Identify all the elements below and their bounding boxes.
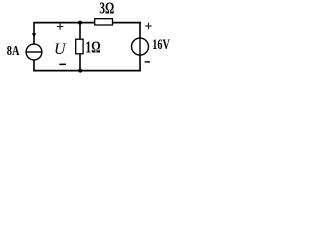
resistor R2 box (3 ohm, horizontal) (95, 19, 113, 25)
node junction dot top (78, 21, 82, 25)
resistor R1 box (1 ohm, vertical) (76, 39, 83, 54)
svg-text:U: U (54, 41, 67, 58)
wire left vertical lower (33, 60, 35, 72)
wire bottom segment (33, 70, 141, 72)
voltage source vertical bar (139, 38, 141, 55)
svg-text:16V: 16V (152, 37, 170, 53)
label minus (U) (59, 64, 66, 66)
label plus (16V) (145, 23, 151, 29)
voltage source V1 circle (16V) (132, 38, 149, 55)
svg-text:1Ω: 1Ω (85, 38, 100, 57)
svg-text:3Ω: 3Ω (99, 0, 114, 18)
wire top-left segment (34, 22, 95, 24)
label plus (U) (57, 23, 63, 29)
wire left vertical upper (33, 22, 35, 45)
svg-text:8A: 8A (7, 44, 20, 59)
node junction dot bottom (78, 69, 82, 73)
wire right vertical lower (139, 55, 141, 71)
wire 1-ohm branch lower lead (79, 54, 81, 71)
label minus (16V) (145, 61, 150, 62)
current direction arrowhead on left branch (32, 33, 36, 38)
wire 1-ohm branch upper lead (79, 23, 81, 40)
current source U1 circle (8A) (26, 44, 42, 60)
current source horizontal bar (26, 51, 42, 53)
wire top-right segment (113, 22, 141, 24)
wire right vertical upper (139, 22, 141, 38)
